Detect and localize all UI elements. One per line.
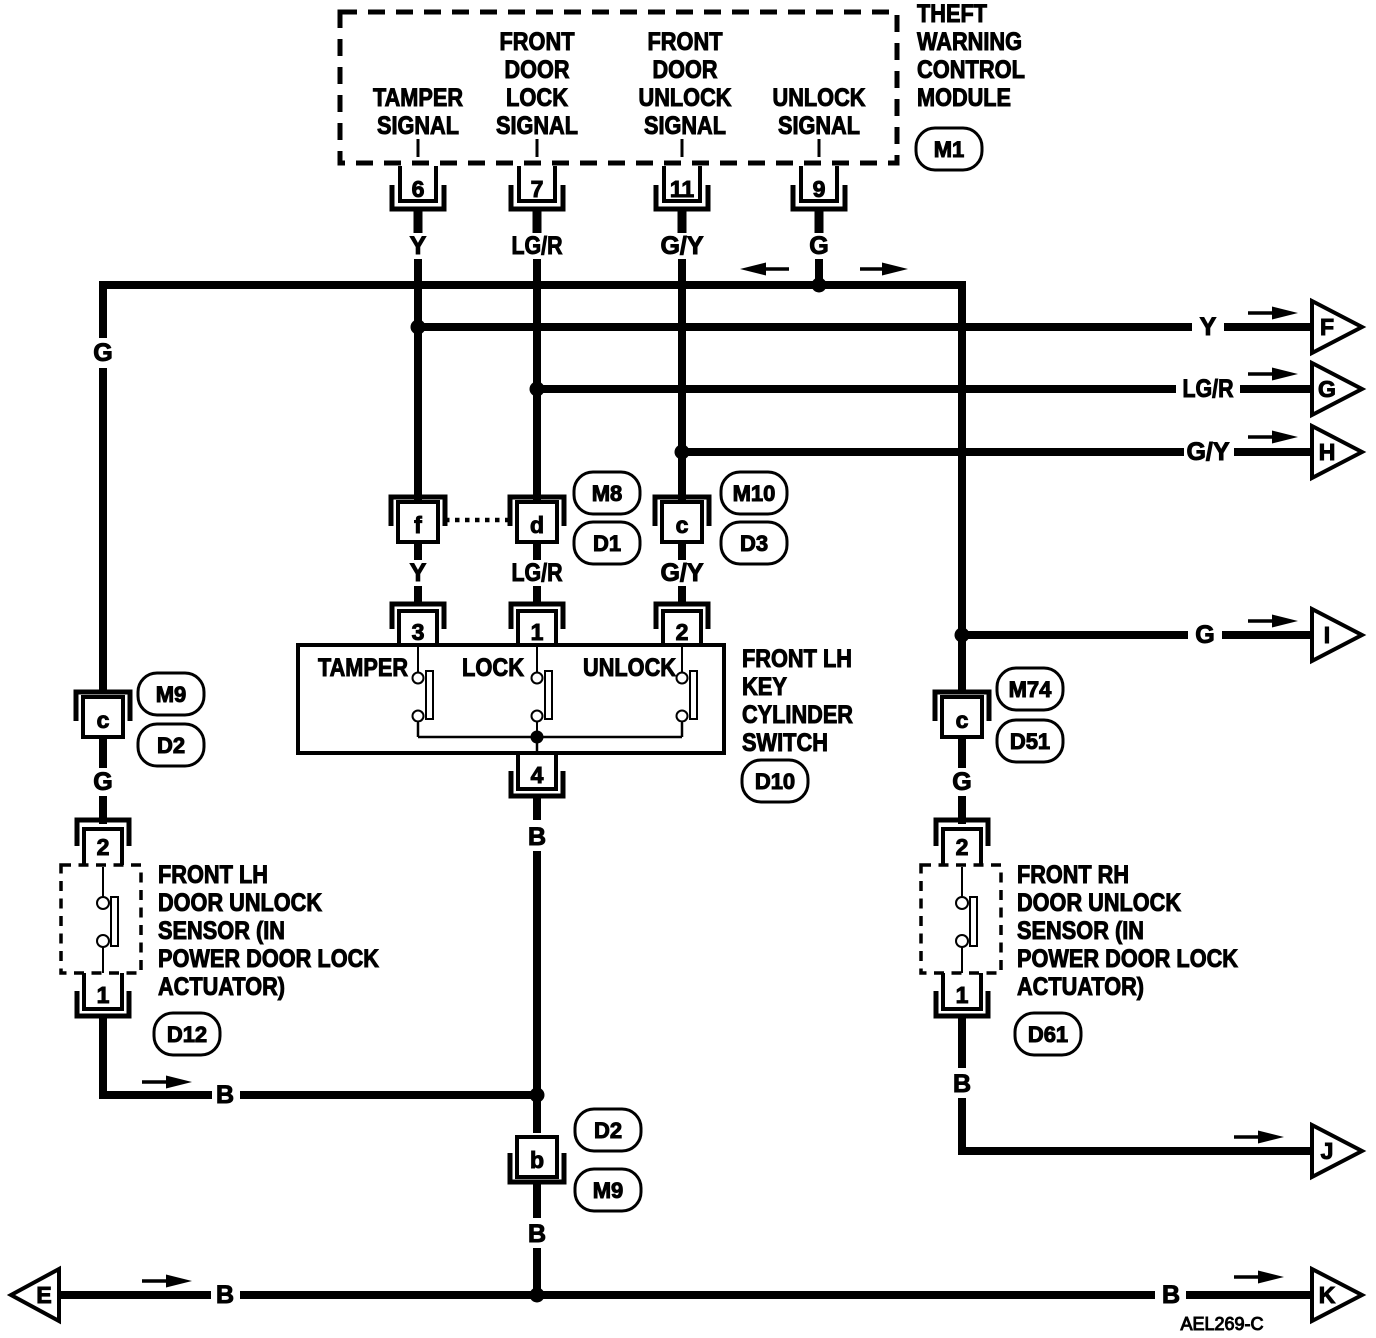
svg-text:THEFT: THEFT bbox=[917, 0, 987, 28]
oval D10 bbox=[742, 760, 808, 802]
svg-text:1: 1 bbox=[956, 982, 969, 1008]
pin 1 (left sensor) bbox=[77, 973, 129, 1016]
wire label Y (pin 6) bbox=[410, 232, 427, 260]
svg-text:ACTUATOR): ACTUATOR) bbox=[1017, 973, 1144, 1001]
wire Y stub to pin 3 bbox=[414, 586, 422, 604]
svg-text:TAMPER: TAMPER bbox=[373, 84, 463, 112]
svg-text:D61: D61 bbox=[1028, 1022, 1068, 1047]
connector arrow J bbox=[1312, 1125, 1362, 1177]
wire G bus horizontal bbox=[99, 281, 962, 289]
svg-text:K: K bbox=[1319, 1282, 1336, 1308]
svg-text:LOCK: LOCK bbox=[506, 84, 568, 112]
label FRONT RH DOOR UNLOCK SENSOR bbox=[1017, 861, 1238, 1001]
svg-text:G/Y: G/Y bbox=[1186, 438, 1229, 466]
front LH key cylinder switch box bbox=[298, 645, 724, 753]
pin 1 (right sensor) bbox=[936, 973, 988, 1016]
svg-text:TAMPER: TAMPER bbox=[318, 654, 408, 682]
front RH door unlock sensor dashed box bbox=[921, 865, 1001, 973]
svg-text:d: d bbox=[530, 512, 544, 538]
svg-text:c: c bbox=[676, 512, 689, 538]
svg-text:I: I bbox=[1324, 622, 1330, 648]
oval M10 bbox=[721, 472, 787, 514]
wire B stub to ground wire bbox=[533, 1248, 541, 1295]
svg-text:M9: M9 bbox=[156, 682, 187, 707]
oval D2 (left) bbox=[138, 724, 204, 766]
svg-text:FRONT RH: FRONT RH bbox=[1017, 861, 1129, 889]
oval M9 (left) bbox=[138, 673, 204, 715]
svg-text:M74: M74 bbox=[1009, 677, 1053, 702]
svg-text:4: 4 bbox=[531, 762, 544, 788]
wire label LG/R (right) bbox=[1183, 375, 1234, 403]
svg-text:D12: D12 bbox=[167, 1022, 207, 1047]
svg-text:M8: M8 bbox=[592, 481, 623, 506]
svg-text:2: 2 bbox=[676, 619, 689, 645]
pin 2 (left sensor) bbox=[77, 820, 129, 865]
wire LG/R vertical (pin 7 to connector d) bbox=[533, 259, 541, 502]
svg-text:B: B bbox=[528, 1220, 546, 1248]
svg-text:M9: M9 bbox=[593, 1178, 624, 1203]
pin 7 bbox=[511, 139, 563, 233]
wire label B (left) bbox=[216, 1081, 234, 1109]
connector oval M1 bbox=[916, 128, 982, 170]
svg-text:G: G bbox=[952, 768, 971, 796]
svg-text:1: 1 bbox=[531, 619, 544, 645]
svg-text:G: G bbox=[1195, 621, 1214, 649]
svg-text:J: J bbox=[1321, 1138, 1334, 1164]
arrow before F bbox=[1248, 307, 1298, 320]
svg-text:DOOR UNLOCK: DOOR UNLOCK bbox=[158, 889, 322, 917]
arrow before I bbox=[1248, 615, 1298, 628]
wire G/Y branch to H bbox=[682, 448, 1312, 456]
svg-text:D2: D2 bbox=[157, 733, 185, 758]
svg-text:f: f bbox=[414, 512, 422, 538]
wire label Y (below f) bbox=[410, 559, 427, 587]
svg-text:LOCK: LOCK bbox=[462, 654, 524, 682]
svg-text:G: G bbox=[93, 768, 112, 796]
wire label G/Y (right) bbox=[1186, 438, 1229, 466]
wire switch common bbox=[418, 723, 682, 751]
svg-text:FRONT LH: FRONT LH bbox=[742, 645, 852, 673]
pin 2 (right sensor) bbox=[936, 820, 988, 865]
svg-text:Y: Y bbox=[410, 232, 427, 260]
wire G/Y vertical (pin 11 to connector c) bbox=[678, 259, 686, 502]
svg-text:D3: D3 bbox=[740, 531, 768, 556]
svg-text:D51: D51 bbox=[1010, 729, 1050, 754]
pin 1 (key cylinder) bbox=[511, 604, 563, 646]
pin 6 bbox=[392, 139, 444, 233]
svg-text:UNLOCK: UNLOCK bbox=[583, 654, 676, 682]
svg-text:LG/R: LG/R bbox=[512, 559, 563, 587]
svg-text:B: B bbox=[216, 1081, 234, 1109]
wire B bottom horizontal bbox=[59, 1291, 1312, 1299]
connector arrow G bbox=[1312, 363, 1362, 415]
wire label G (right) bbox=[1195, 621, 1214, 649]
svg-text:KEY: KEY bbox=[742, 673, 787, 701]
connector c (M74/D51 right) bbox=[935, 692, 989, 737]
svg-text:H: H bbox=[1319, 439, 1336, 465]
svg-text:SIGNAL: SIGNAL bbox=[778, 112, 860, 140]
connector arrow F bbox=[1312, 301, 1362, 353]
pin 4 bbox=[511, 753, 563, 796]
svg-text:Y: Y bbox=[410, 559, 427, 587]
svg-text:D1: D1 bbox=[593, 531, 621, 556]
svg-text:SENSOR (IN: SENSOR (IN bbox=[158, 917, 285, 945]
wire LG/R stub to pin 1 bbox=[533, 586, 541, 604]
wire Y branch to F bbox=[418, 323, 1312, 331]
wire G left vertical upper bbox=[99, 281, 107, 692]
junction dot G right bbox=[955, 628, 970, 643]
wire label B (right vertical) bbox=[953, 1070, 971, 1098]
junction dot switch common bbox=[531, 731, 544, 744]
wire B right vertical bbox=[958, 1016, 966, 1068]
label FRONT LH DOOR UNLOCK SENSOR bbox=[158, 861, 379, 1001]
wire label B (bottom center) bbox=[528, 1220, 546, 1248]
svg-text:SWITCH: SWITCH bbox=[742, 729, 828, 757]
svg-text:AEL269-C: AEL269-C bbox=[1180, 1314, 1263, 1334]
arrow before H bbox=[1248, 431, 1298, 444]
connector arrow I bbox=[1312, 609, 1362, 661]
svg-text:D10: D10 bbox=[755, 769, 795, 794]
svg-text:FRONT: FRONT bbox=[648, 28, 723, 56]
wire label Y (right) bbox=[1200, 313, 1217, 341]
svg-text:WARNING: WARNING bbox=[917, 28, 1022, 56]
wire label G (left upper) bbox=[93, 339, 112, 367]
svg-text:LG/R: LG/R bbox=[512, 232, 563, 260]
wire G/Y stub to pin 2 bbox=[678, 586, 686, 604]
svg-text:3: 3 bbox=[412, 619, 425, 645]
svg-text:b: b bbox=[530, 1147, 544, 1173]
oval D51 bbox=[997, 720, 1063, 762]
pin 9 bbox=[793, 139, 845, 233]
module name THEFT WARNING CONTROL MODULE bbox=[917, 0, 1025, 112]
wire B center vertical bbox=[533, 851, 541, 1133]
wire G stub to pin 2 left bbox=[99, 796, 107, 824]
junction dot Y bbox=[411, 320, 426, 335]
arrow before J bbox=[1234, 1131, 1284, 1144]
connector arrow H bbox=[1312, 426, 1362, 478]
svg-text:POWER DOOR LOCK: POWER DOOR LOCK bbox=[1017, 945, 1238, 973]
wire B left bottom bbox=[103, 1016, 537, 1095]
svg-text:B: B bbox=[953, 1070, 971, 1098]
svg-text:DOOR: DOOR bbox=[653, 56, 718, 84]
wire label G (right lower) bbox=[952, 768, 971, 796]
arrow before G bbox=[1248, 368, 1298, 381]
svg-text:9: 9 bbox=[813, 176, 826, 202]
right sensor contact bbox=[956, 867, 977, 973]
svg-text:POWER DOOR LOCK: POWER DOOR LOCK bbox=[158, 945, 379, 973]
oval D1 bbox=[574, 522, 640, 564]
svg-text:UNLOCK: UNLOCK bbox=[773, 84, 866, 112]
svg-text:B: B bbox=[1162, 1281, 1180, 1309]
oval D61 bbox=[1015, 1013, 1081, 1055]
wire G/Y stub below c bbox=[678, 542, 686, 560]
svg-text:SENSOR (IN: SENSOR (IN bbox=[1017, 917, 1144, 945]
label UNLOCK bbox=[583, 654, 676, 682]
svg-text:DOOR UNLOCK: DOOR UNLOCK bbox=[1017, 889, 1181, 917]
wire label LG/R (below d) bbox=[512, 559, 563, 587]
module label FRONT DOOR UNLOCK SIGNAL bbox=[639, 28, 732, 140]
oval M74 bbox=[997, 668, 1063, 710]
svg-text:F: F bbox=[1320, 314, 1334, 340]
connector arrow K bbox=[1312, 1269, 1362, 1321]
wire label B (bottom left) bbox=[216, 1281, 234, 1309]
wire LG/R stub below d bbox=[533, 542, 541, 560]
svg-text:FRONT: FRONT bbox=[500, 28, 575, 56]
arrow left on G bus bbox=[740, 263, 789, 276]
svg-text:G: G bbox=[1318, 376, 1336, 402]
svg-text:G: G bbox=[809, 232, 828, 260]
junction dot G/Y bbox=[675, 445, 690, 460]
svg-text:6: 6 bbox=[412, 176, 425, 202]
wire G branch to I bbox=[962, 631, 1312, 639]
module label FRONT DOOR LOCK SIGNAL bbox=[496, 28, 578, 140]
wire G right to connector c bbox=[958, 638, 966, 692]
svg-text:G/Y: G/Y bbox=[660, 559, 703, 587]
wire label B (below pin 4) bbox=[528, 823, 546, 851]
wire label G (left lower) bbox=[93, 768, 112, 796]
junction dot LG/R bbox=[530, 382, 545, 397]
wire LG/R branch to G bbox=[537, 385, 1312, 393]
oval M8 bbox=[574, 472, 640, 514]
wire B right to J bbox=[962, 1098, 1312, 1151]
junction dot bottom bbox=[530, 1288, 545, 1303]
svg-text:CONTROL: CONTROL bbox=[917, 56, 1025, 84]
svg-text:SIGNAL: SIGNAL bbox=[377, 112, 459, 140]
svg-text:c: c bbox=[97, 707, 110, 733]
connector d bbox=[510, 497, 564, 542]
arrow before K bbox=[1234, 1271, 1284, 1284]
wire Y stub below f bbox=[414, 542, 422, 560]
wire label B (bottom right) bbox=[1162, 1281, 1180, 1309]
svg-text:11: 11 bbox=[670, 176, 695, 202]
svg-text:SIGNAL: SIGNAL bbox=[496, 112, 578, 140]
label FRONT LH KEY CYLINDER SWITCH bbox=[742, 645, 853, 757]
svg-text:2: 2 bbox=[97, 834, 110, 860]
theft warning control module outline (dashed) bbox=[340, 12, 897, 163]
svg-text:D2: D2 bbox=[594, 1118, 622, 1143]
wire G stub right bbox=[958, 737, 966, 768]
svg-text:SIGNAL: SIGNAL bbox=[644, 112, 726, 140]
oval D2 (bottom) bbox=[575, 1109, 641, 1151]
svg-text:M10: M10 bbox=[733, 481, 776, 506]
wire B stub below b bbox=[533, 1182, 541, 1218]
connector arrow E bbox=[11, 1269, 59, 1321]
svg-text:1: 1 bbox=[97, 982, 110, 1008]
drawing number AEL269-C bbox=[1180, 1314, 1263, 1334]
connector b (D2/M9) bbox=[510, 1137, 564, 1182]
svg-text:M1: M1 bbox=[934, 137, 965, 162]
svg-text:DOOR: DOOR bbox=[505, 56, 570, 84]
left sensor contact bbox=[97, 867, 118, 973]
wire label G (pin 9) bbox=[809, 232, 828, 260]
svg-text:G: G bbox=[93, 339, 112, 367]
arrow on bottom wire left bbox=[142, 1275, 192, 1288]
pin 2 (key cylinder) bbox=[656, 604, 708, 646]
label LOCK bbox=[462, 654, 524, 682]
label TAMPER bbox=[318, 654, 408, 682]
svg-text:G/Y: G/Y bbox=[660, 232, 703, 260]
wire G stub to pin 2 right bbox=[958, 796, 966, 824]
connector c (M9/D2 left) bbox=[76, 692, 130, 737]
connector c (M10/D3) bbox=[655, 497, 709, 542]
unlock switch contact bbox=[677, 647, 698, 736]
svg-text:2: 2 bbox=[956, 834, 969, 860]
wire label G/Y (below c) bbox=[660, 559, 703, 587]
module label TAMPER SIGNAL bbox=[373, 84, 463, 140]
front LH door unlock sensor dashed box bbox=[61, 865, 141, 973]
svg-text:7: 7 bbox=[531, 176, 544, 202]
svg-text:Y: Y bbox=[1200, 313, 1217, 341]
arrow right on G bus bbox=[860, 263, 908, 276]
svg-text:CYLINDER: CYLINDER bbox=[742, 701, 853, 729]
wire label LG/R (pin 7) bbox=[512, 232, 563, 260]
pin 11 bbox=[656, 139, 708, 233]
wire G stub pin 9 bbox=[815, 259, 823, 281]
oval M9 (bottom) bbox=[575, 1169, 641, 1211]
wire G right vertical bbox=[958, 281, 966, 638]
svg-text:B: B bbox=[528, 823, 546, 851]
svg-text:E: E bbox=[36, 1282, 51, 1308]
junction dot G bus bbox=[812, 278, 827, 293]
pin 3 bbox=[392, 604, 444, 646]
lock switch contact bbox=[532, 647, 553, 736]
dotted link f-d bbox=[445, 518, 510, 523]
connector f bbox=[391, 497, 445, 542]
svg-text:ACTUATOR): ACTUATOR) bbox=[158, 973, 285, 1001]
svg-text:B: B bbox=[216, 1281, 234, 1309]
wire Y vertical (pin 6 to connector f) bbox=[414, 259, 422, 502]
wire B from pin 4 bbox=[533, 796, 541, 820]
svg-text:c: c bbox=[956, 707, 969, 733]
wire G stub left bbox=[99, 737, 107, 768]
svg-text:UNLOCK: UNLOCK bbox=[639, 84, 732, 112]
tamper switch contact bbox=[413, 647, 434, 736]
junction dot B center bbox=[530, 1088, 545, 1103]
oval D12 bbox=[154, 1013, 220, 1055]
wire label G/Y (pin 11) bbox=[660, 232, 703, 260]
oval D3 bbox=[721, 522, 787, 564]
module label UNLOCK SIGNAL bbox=[773, 84, 866, 140]
svg-text:LG/R: LG/R bbox=[1183, 375, 1234, 403]
svg-text:MODULE: MODULE bbox=[917, 84, 1011, 112]
arrow on B left wire bbox=[142, 1076, 192, 1089]
svg-text:FRONT LH: FRONT LH bbox=[158, 861, 268, 889]
